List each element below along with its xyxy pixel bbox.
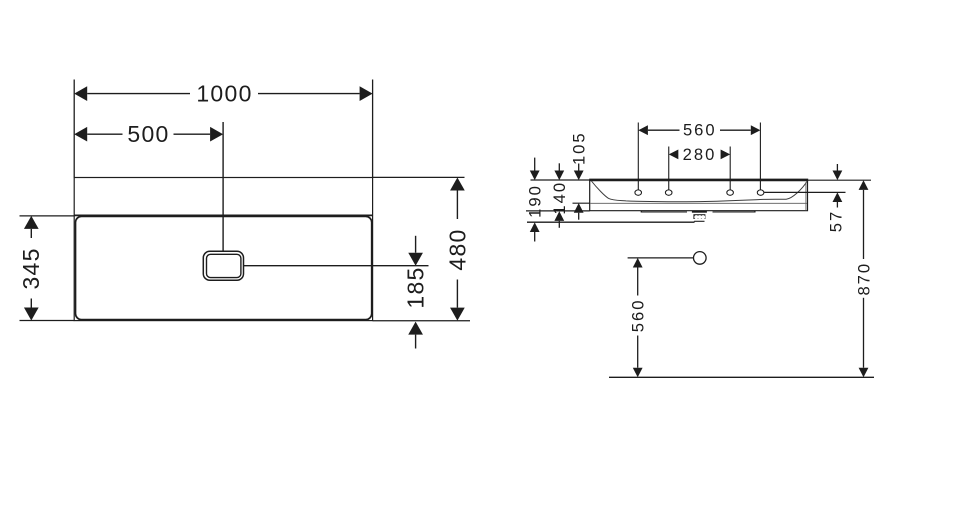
svg-text:185: 185 — [402, 266, 428, 308]
basin top edge (front view) — [589, 179, 808, 182]
svg-text:280: 280 — [683, 145, 717, 164]
dimension 1000 — [74, 86, 372, 101]
faucet hole 4 — [757, 190, 764, 195]
dimension 57 — [833, 164, 843, 208]
bowl inner rounded rectangle (top view) — [76, 216, 372, 319]
faucet hole 2 — [665, 190, 672, 195]
extension line left (1000/500) — [73, 80, 75, 178]
extension line right (1000) — [372, 80, 374, 178]
basin outer rectangle (top view) — [74, 178, 372, 321]
bowl inner bottom line (front view) — [590, 202, 807, 204]
deck edge line (top view) — [74, 214, 372, 216]
svg-text:560: 560 — [629, 299, 648, 333]
centerline to drain — [222, 122, 224, 251]
svg-text:870: 870 — [854, 262, 873, 296]
svg-text:57: 57 — [827, 210, 846, 232]
lower reference line (190) — [527, 221, 695, 223]
floor line — [609, 376, 874, 378]
dimension 280 — [669, 150, 730, 160]
dimension 185 — [408, 236, 423, 349]
extension lines 280 — [669, 147, 730, 190]
dimension 560 vertical — [633, 258, 643, 377]
bottom edge extension (140) — [526, 210, 590, 212]
dimension 345 — [24, 216, 39, 321]
wall outlet circle — [694, 252, 707, 265]
dimension 140 — [554, 163, 564, 228]
top reference line right — [808, 179, 871, 181]
extension lines 480 — [373, 177, 470, 320]
dimension 500 — [74, 127, 223, 142]
base ledge (front view) — [641, 211, 755, 213]
bowl bottom extension (105) — [573, 202, 591, 204]
svg-text:105: 105 — [570, 131, 589, 165]
dimension 870 — [859, 180, 869, 377]
dimension 105 — [574, 164, 584, 220]
dimension 560 top — [638, 125, 760, 135]
extension lines 345 — [20, 216, 75, 321]
hole center line (57) — [764, 191, 845, 193]
basin inner right wall (front view) — [805, 182, 807, 210]
faucet hole 3 — [727, 190, 734, 195]
bowl interior curve (front view) — [591, 181, 807, 202]
svg-text:1000: 1000 — [196, 81, 252, 107]
dimension 190 — [530, 158, 540, 242]
svg-text:140: 140 — [550, 181, 569, 215]
faucet hole 1 — [635, 190, 642, 195]
drain valve (front view) — [692, 211, 707, 219]
drain inner ring (top view) — [207, 254, 241, 277]
extension lines 560 top — [638, 123, 760, 190]
svg-text:190: 190 — [526, 184, 545, 218]
drain outer ring (top view) — [203, 251, 243, 280]
drain reference line (185) — [244, 265, 429, 267]
basin body outline (front view) — [590, 180, 808, 211]
dimension 480 — [450, 178, 465, 321]
top reference line left — [531, 179, 590, 181]
svg-text:345: 345 — [18, 247, 44, 289]
drain bottom line — [694, 220, 704, 223]
svg-text:480: 480 — [445, 228, 471, 270]
svg-text:560: 560 — [683, 120, 717, 139]
svg-text:500: 500 — [127, 121, 169, 147]
outlet reference line (560 vertical) — [628, 257, 694, 259]
